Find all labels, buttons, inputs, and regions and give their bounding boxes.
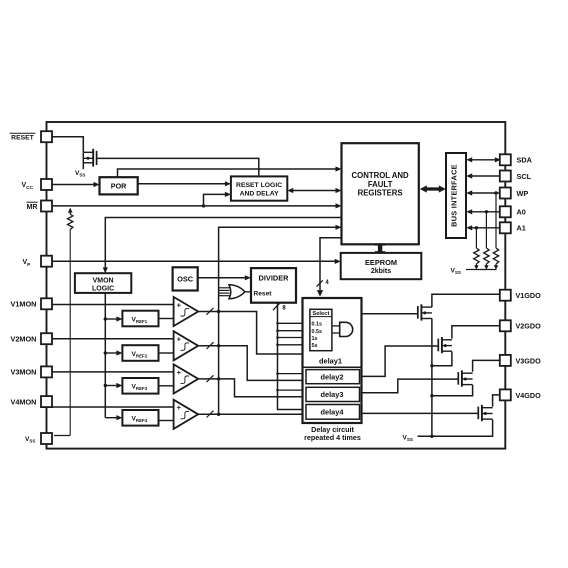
svg-text:V3MON: V3MON — [11, 368, 37, 377]
svg-text:delay1: delay1 — [319, 357, 342, 366]
svg-text:+: + — [177, 403, 182, 412]
svg-text:5s: 5s — [312, 343, 318, 349]
svg-text:V2GDO: V2GDO — [516, 322, 542, 331]
svg-text:EEPROM: EEPROM — [365, 258, 397, 267]
svg-text:RESET: RESET — [11, 135, 35, 142]
svg-text:SCL: SCL — [517, 172, 532, 181]
svg-text:V1MON: V1MON — [11, 300, 37, 309]
svg-text:REGISTERS: REGISTERS — [358, 189, 403, 198]
svg-text:A0: A0 — [517, 208, 526, 217]
svg-text:0.5s: 0.5s — [312, 329, 323, 335]
svg-text:V4GDO: V4GDO — [516, 391, 542, 400]
svg-text:V3GDO: V3GDO — [516, 356, 542, 365]
svg-text:CONTROL AND: CONTROL AND — [352, 171, 410, 180]
svg-text:A1: A1 — [517, 224, 526, 233]
svg-text:RESET LOGIC: RESET LOGIC — [236, 182, 282, 189]
svg-text:VMON: VMON — [93, 278, 114, 285]
svg-text:+: + — [177, 301, 182, 310]
svg-text:FAULT: FAULT — [368, 180, 393, 189]
svg-text:+: + — [177, 335, 182, 344]
svg-text:BUS INTERFACE: BUS INTERFACE — [450, 164, 459, 227]
svg-text:repeated 4 times: repeated 4 times — [304, 433, 361, 442]
svg-text:Reset: Reset — [254, 291, 273, 298]
svg-text:LOGIC: LOGIC — [92, 286, 114, 293]
svg-text:POR: POR — [111, 182, 127, 191]
svg-text:delay3: delay3 — [320, 390, 343, 399]
svg-text:Select: Select — [312, 311, 329, 317]
svg-text:2kbits: 2kbits — [371, 268, 391, 275]
svg-text:+: + — [177, 368, 182, 377]
svg-text:V4MON: V4MON — [11, 397, 37, 406]
svg-text:WP: WP — [517, 189, 529, 198]
svg-text:delay2: delay2 — [320, 373, 343, 382]
svg-text:1s: 1s — [312, 336, 318, 342]
svg-text:SDA: SDA — [517, 156, 533, 165]
svg-text:OSC: OSC — [177, 275, 194, 284]
svg-text:delay4: delay4 — [320, 408, 344, 417]
svg-text:AND DELAY: AND DELAY — [240, 190, 279, 197]
svg-text:0.1s: 0.1s — [312, 322, 323, 328]
svg-text:V2MON: V2MON — [11, 335, 37, 344]
svg-text:MR: MR — [27, 204, 38, 211]
svg-text:DIVIDER: DIVIDER — [259, 273, 290, 282]
svg-text:V1GDO: V1GDO — [516, 291, 542, 300]
